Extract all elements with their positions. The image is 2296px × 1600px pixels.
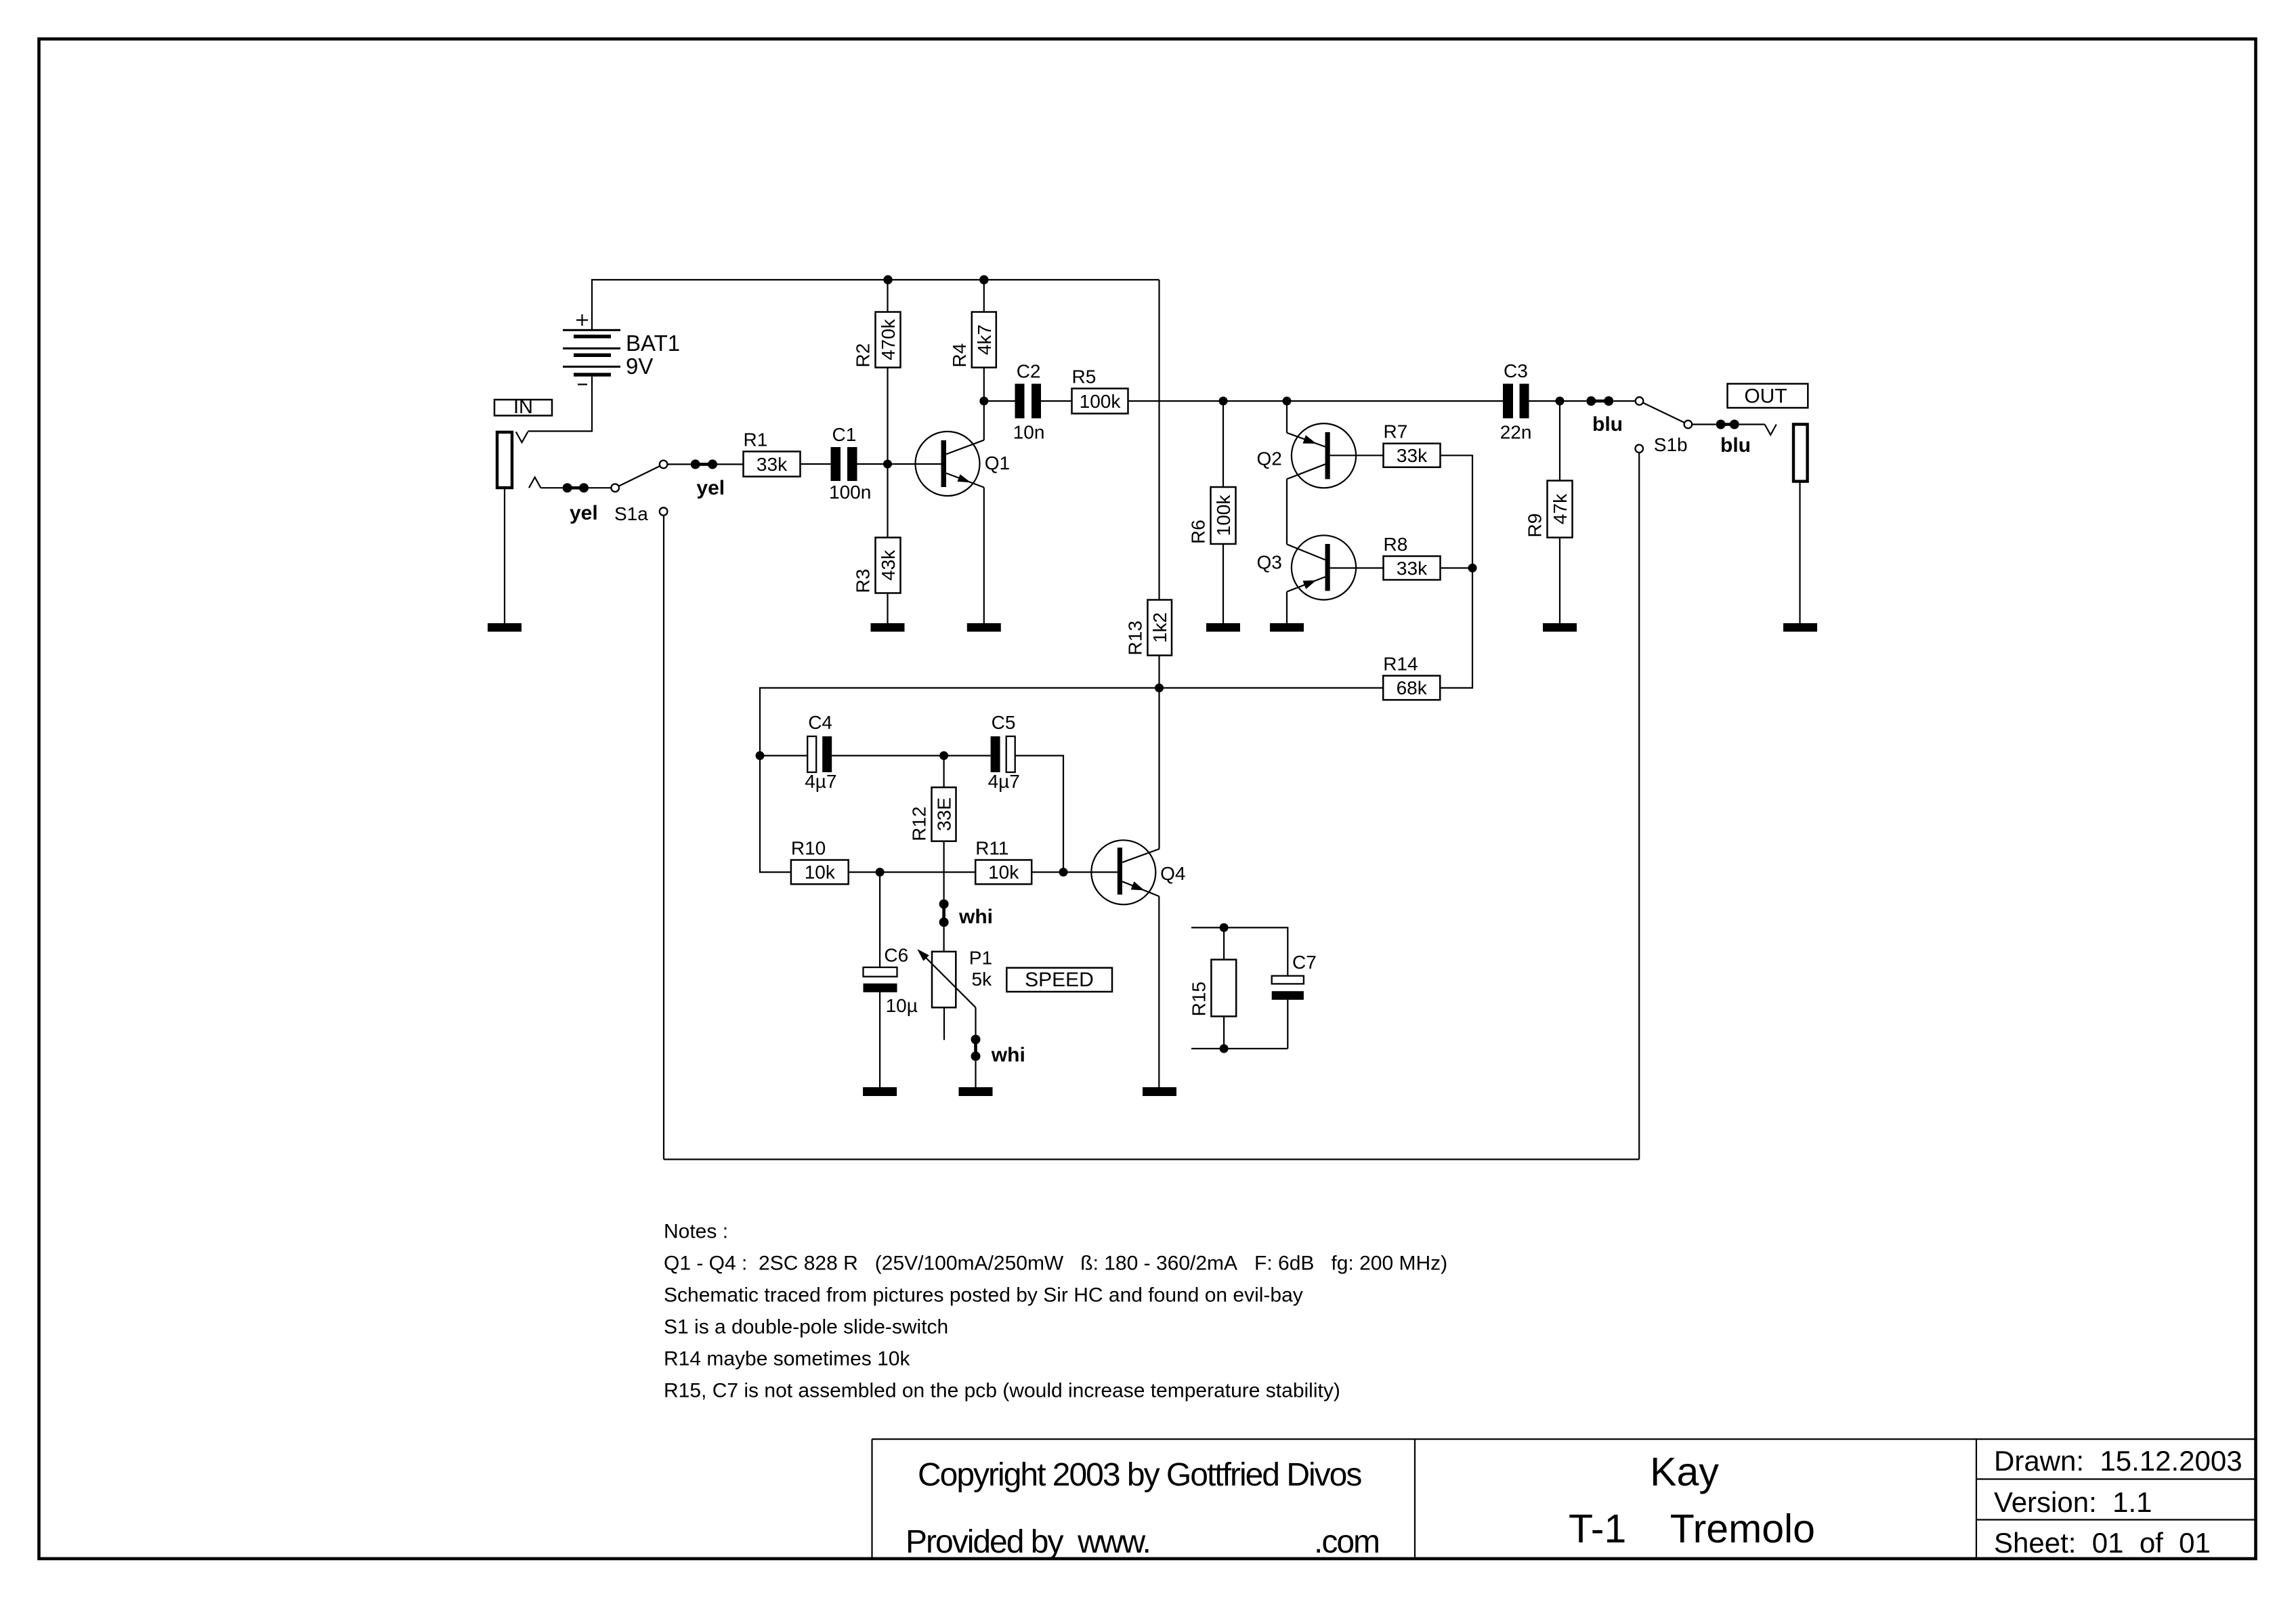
svg-text:R10: R10 <box>791 838 826 859</box>
value 4u7 (C4) <box>805 771 836 792</box>
label C1 <box>832 424 857 445</box>
connector pair whi (R12 to P1) <box>939 900 949 927</box>
wire connector to OUT jack tip <box>1739 423 1765 425</box>
label yel (after switch) <box>696 477 725 499</box>
junction node Q1 base <box>883 460 892 469</box>
value 33E (R12) <box>934 797 955 831</box>
OUT label box <box>1728 384 1808 408</box>
value 5k (P1) <box>972 969 993 990</box>
potentiometer P1 <box>917 949 975 1040</box>
capacitor C6 <box>864 967 897 992</box>
svg-text:P1: P1 <box>969 948 992 969</box>
svg-text:33k: 33k <box>1397 558 1428 579</box>
value 100n (C1) <box>829 482 871 503</box>
connector pair yel (input side) <box>563 483 589 492</box>
resistor R13 <box>1147 600 1172 656</box>
svg-text:whi: whi <box>991 1044 1025 1066</box>
battery BAT1 <box>563 314 620 385</box>
wire R15/C7 top <box>1191 927 1288 975</box>
transistor Q4 <box>1091 840 1160 904</box>
resistor R11 <box>975 860 1032 885</box>
label blu (after switch) <box>1720 434 1751 457</box>
wire junction to R12 <box>943 756 944 788</box>
resistor R7 <box>1384 444 1441 467</box>
wire Q2 collector to Q3 collector <box>1286 479 1288 544</box>
wire R14 to node A <box>1160 687 1384 688</box>
capacitor C7 <box>1272 976 1304 1000</box>
junction R4/C2/Q1 collector <box>979 397 988 406</box>
wire node column down to R14 <box>1440 568 1472 688</box>
ground (Q1) <box>967 623 1001 632</box>
svg-text:blu: blu <box>1720 434 1751 457</box>
value 22n (C3) <box>1500 422 1532 443</box>
ground (IN jack) <box>488 623 522 632</box>
junction rail/R2 <box>883 275 892 284</box>
capacitor C3 <box>1503 384 1529 419</box>
svg-text:C4: C4 <box>808 712 832 733</box>
resistor R8 <box>1384 556 1441 580</box>
label Q1 <box>985 452 1010 473</box>
value 10k (R10) <box>805 862 836 883</box>
ground (R3) <box>871 623 905 632</box>
wire R12 down to connector whi <box>943 841 944 900</box>
junction R15 bottom <box>1220 1045 1229 1053</box>
svg-text:R8: R8 <box>1384 534 1408 555</box>
svg-text:R15, C7 is not assembled on th: R15, C7 is not assembled on the pcb (wou… <box>664 1380 1340 1402</box>
resistor R4 <box>972 312 996 368</box>
svg-text:100k: 100k <box>1213 494 1234 536</box>
value 4k7 (R4) <box>974 324 995 355</box>
wire R15 top lead <box>1223 927 1225 959</box>
wire Q4 emitter to ground <box>1158 896 1160 1087</box>
junction signal/Q2 <box>1283 397 1292 406</box>
wire C7 bottom lead <box>1287 1000 1288 1049</box>
svg-text:R6: R6 <box>1188 520 1209 544</box>
wire rail corner down to R13 <box>1158 280 1160 600</box>
wire R15 bottom lead <box>1223 1016 1225 1049</box>
resistor R14 <box>1383 676 1440 700</box>
SPEED label box <box>1006 968 1112 992</box>
jack IN <box>497 432 528 488</box>
svg-text:R5: R5 <box>1072 366 1097 387</box>
connector pair yel (after switch) <box>691 459 717 469</box>
wire R3 to ground <box>887 593 888 624</box>
junction R11/C5/Q4 base <box>1059 868 1068 877</box>
svg-text:4k7: 4k7 <box>974 324 995 355</box>
label blu (before switch) <box>1592 413 1623 436</box>
label C4 <box>808 712 832 733</box>
svg-text:IN: IN <box>513 396 533 418</box>
resistor R2 <box>876 312 901 368</box>
wire R13 to node A <box>1158 656 1160 688</box>
svg-text:C3: C3 <box>1504 360 1528 381</box>
value 47k (R9) <box>1550 493 1571 524</box>
switch S1a <box>611 461 667 515</box>
label C6 <box>884 944 908 965</box>
svg-text:S1a: S1a <box>614 503 648 524</box>
svg-text:Version: 1.1: Version: 1.1 <box>1994 1486 2152 1518</box>
wire battery minus to IN jack tip <box>528 377 592 431</box>
wire C2 to R5 <box>1041 400 1072 402</box>
svg-text:yel: yel <box>696 477 725 499</box>
label R6 <box>1188 520 1209 544</box>
svg-text:33E: 33E <box>934 797 955 831</box>
wire connector whi to ground <box>975 1061 976 1087</box>
label R10 <box>791 838 826 859</box>
junction C3/R9 <box>1556 397 1565 406</box>
switch S1b <box>1635 397 1692 452</box>
ground (Q3) <box>1270 623 1304 632</box>
wire R10 to R11 <box>849 871 976 872</box>
junction C4/C5/R12 <box>939 751 948 760</box>
wire base node to R3 <box>887 464 888 538</box>
wire S1a to connector yel 2 <box>667 463 690 465</box>
svg-text:33k: 33k <box>757 454 788 475</box>
wire feedback column to C4 <box>760 755 807 756</box>
svg-text:R14: R14 <box>1383 654 1418 675</box>
svg-text:Drawn: 15.12.2003: Drawn: 15.12.2003 <box>1994 1445 2242 1477</box>
transistor Q2 <box>1287 423 1356 488</box>
svg-text:33k: 33k <box>1397 445 1428 466</box>
svg-text:10n: 10n <box>1013 422 1045 443</box>
label R3 <box>853 569 874 593</box>
wire connector to S1a common <box>589 487 611 488</box>
svg-text:R1: R1 <box>744 429 768 450</box>
label Q2 <box>1257 448 1282 469</box>
svg-text:SPEED: SPEED <box>1025 969 1094 991</box>
label whi (upper) <box>958 906 993 928</box>
svg-text:R14 maybe sometimes 10k: R14 maybe sometimes 10k <box>664 1348 910 1370</box>
transistor Q3 <box>1287 535 1356 599</box>
junction signal/R6 <box>1219 397 1228 406</box>
value 4u7 (C5) <box>988 771 1020 792</box>
ground (R9) <box>1543 623 1577 632</box>
svg-text:10µ: 10µ <box>886 995 918 1016</box>
svg-text:S1b: S1b <box>1654 434 1688 455</box>
label C5 <box>992 712 1016 733</box>
svg-text:Schematic traced from pictures: Schematic traced from pictures posted by… <box>664 1284 1303 1307</box>
svg-text:BAT1: BAT1 <box>626 331 680 356</box>
svg-text:R2: R2 <box>853 343 874 368</box>
wire R4 to collector node <box>983 368 985 402</box>
wire R2 to base node <box>887 368 888 465</box>
transistor Q1 <box>916 431 984 496</box>
ground (C6) <box>863 1087 897 1096</box>
label S1b <box>1654 434 1688 455</box>
label C7 <box>1292 952 1317 973</box>
wire R1 to C1 <box>801 463 831 465</box>
value 100k (R6) <box>1213 494 1234 536</box>
svg-text:100n: 100n <box>829 482 871 503</box>
wire rail to R2 <box>887 280 888 312</box>
svg-text:10k: 10k <box>988 862 1019 883</box>
wire S1b unused throw down to bypass loop <box>1638 452 1640 1159</box>
label BAT1 value 9V <box>626 331 680 379</box>
label yel (input side) <box>570 502 598 524</box>
svg-text:Q4: Q4 <box>1160 863 1185 884</box>
wire C3 to R9 node <box>1529 400 1587 402</box>
resistor R5 <box>1072 389 1128 414</box>
wire C1 to Q1 base <box>857 463 941 465</box>
value 10k (R11) <box>988 862 1019 883</box>
wire connector to R1 <box>717 463 744 465</box>
svg-text:R9: R9 <box>1525 513 1546 538</box>
value 470k (R2) <box>878 318 899 360</box>
label R11 <box>975 838 1008 859</box>
notes text <box>664 1221 1447 1402</box>
junction feedback/C4 <box>756 751 765 760</box>
wire Q2 base to R7 <box>1330 455 1384 456</box>
label R8 <box>1384 534 1408 555</box>
svg-text:blu: blu <box>1592 413 1623 436</box>
svg-text:Q1 - Q4 : 2SC 828 R (25V/10: Q1 - Q4 : 2SC 828 R (25V/100mA/250mW ß: … <box>664 1252 1447 1275</box>
node OUT jack tip contact (arrow) <box>1765 425 1777 436</box>
label C2 <box>1017 361 1041 382</box>
svg-text:R3: R3 <box>853 569 874 593</box>
junction R15 top <box>1220 923 1229 932</box>
svg-text:R11: R11 <box>975 838 1008 859</box>
svg-text:yel: yel <box>570 502 598 524</box>
ground (Q4) <box>1143 1087 1176 1096</box>
svg-text:5k: 5k <box>972 969 993 990</box>
resistor R15 <box>1211 960 1236 1017</box>
wire C5 to Q4 base node <box>1015 756 1063 872</box>
value 68k (R14) <box>1397 677 1428 698</box>
capacitor C1 <box>831 447 857 481</box>
wire P1 wiper down to connector whi <box>975 1007 976 1034</box>
svg-text:C7: C7 <box>1292 952 1317 973</box>
wire R8 to node column <box>1441 567 1473 568</box>
wire S1a unused throw down to bypass loop <box>663 515 664 1160</box>
label whi (lower) <box>991 1044 1025 1066</box>
value 33k (R8) <box>1397 558 1428 579</box>
svg-text:R4: R4 <box>949 343 970 368</box>
wire C4 to C5 <box>832 755 990 756</box>
label C3 <box>1504 360 1528 381</box>
jack OUT <box>1793 424 1808 481</box>
wire collector node to C2 <box>984 400 1015 402</box>
svg-text:470k: 470k <box>878 318 899 360</box>
label R14 <box>1383 654 1418 675</box>
label S1a <box>614 503 648 524</box>
svg-text:R15: R15 <box>1188 982 1209 1016</box>
svg-text:22n: 22n <box>1500 422 1532 443</box>
svg-text:C5: C5 <box>992 712 1016 733</box>
svg-text:9V: 9V <box>626 354 653 379</box>
junction R10/C6 <box>876 868 885 877</box>
wire node A to Q4 collector <box>1158 688 1160 849</box>
ground (P1 wiper) <box>959 1087 993 1096</box>
capacitor C5 <box>991 736 1015 772</box>
svg-text:68k: 68k <box>1397 677 1428 698</box>
value 1k2 (R13) <box>1149 612 1170 643</box>
svg-text:47k: 47k <box>1550 493 1571 524</box>
svg-text:1k2: 1k2 <box>1149 612 1170 643</box>
label R4 <box>949 343 970 368</box>
IN label box <box>494 396 552 418</box>
svg-text:S1 is a double-pole slide-swit: S1 is a double-pole slide-switch <box>664 1316 948 1339</box>
svg-text:Kay: Kay <box>1650 1450 1719 1494</box>
label Q4 <box>1160 863 1185 884</box>
svg-text:Copyright 2003 by Gottfried Di: Copyright 2003 by Gottfried Divos <box>918 1457 1361 1493</box>
connector pair blu (before switch) <box>1586 396 1613 406</box>
label R1 <box>744 429 768 450</box>
value 43k (R3) <box>878 549 899 581</box>
resistor R10 <box>791 860 849 885</box>
value 10u (C6) <box>886 995 918 1016</box>
wire OUT jack sleeve to ground <box>1799 482 1800 623</box>
junction rail/R4 <box>979 275 988 284</box>
wire IN jack sleeve to ground <box>504 489 505 623</box>
value 10n (C2) <box>1013 422 1045 443</box>
label R12 <box>909 806 930 841</box>
wire R9 to ground <box>1559 538 1560 624</box>
ground (OUT jack) <box>1783 623 1817 632</box>
svg-text:Notes :: Notes : <box>664 1221 728 1243</box>
wire V+ rail <box>592 280 1160 329</box>
resistor R9 <box>1548 481 1573 538</box>
label P1 <box>969 948 992 969</box>
wire rail to R4 <box>983 280 985 312</box>
resistor R12 <box>932 787 956 841</box>
resistor R1 <box>744 452 801 477</box>
junction R7/R8 column <box>1468 564 1477 572</box>
svg-text:Sheet: 01 of 01: Sheet: 01 of 01 <box>1994 1527 2211 1559</box>
label Q3 <box>1257 552 1282 573</box>
wire Q3 base to R8 <box>1330 567 1384 568</box>
value 33k (R7) <box>1397 445 1428 466</box>
wire Q3 emitter to ground <box>1286 592 1288 624</box>
wire R11 to Q4 base <box>1032 871 1118 872</box>
label R7 <box>1384 421 1408 442</box>
svg-text:C1: C1 <box>832 424 857 445</box>
svg-text:R13: R13 <box>1124 620 1145 655</box>
svg-text:C6: C6 <box>884 944 908 965</box>
wire connector whi to P1 <box>943 927 944 951</box>
wire C6 to ground <box>879 992 880 1087</box>
wire R6 to ground <box>1223 544 1224 623</box>
capacitor C2 <box>1015 384 1042 419</box>
title block <box>872 1439 2256 1561</box>
wire signal bus to Q2 emitter <box>1286 401 1288 433</box>
wire jack tip to connector yel <box>540 487 563 488</box>
junction node A (R13 / R14 / Q4) <box>1155 683 1164 692</box>
svg-text:100k: 100k <box>1080 391 1122 412</box>
svg-text:Provided by www.: Provided by www. <box>906 1524 1150 1560</box>
label R2 <box>853 343 874 368</box>
ground (R6) <box>1206 623 1240 632</box>
wire node A down-left to oscillator feedback column <box>760 688 1160 872</box>
svg-text:whi: whi <box>958 906 993 928</box>
svg-text:C2: C2 <box>1017 361 1041 382</box>
label R13 <box>1124 620 1145 655</box>
wire bypass loop (S1a to S1b) <box>664 1158 1639 1160</box>
svg-text:Q3: Q3 <box>1257 552 1282 573</box>
wire Q1 collector <box>983 401 985 440</box>
wire Q1 emitter to ground <box>983 488 985 624</box>
svg-text:T-1 Tremolo: T-1 Tremolo <box>1569 1507 1815 1551</box>
connector pair whi (P1 to ground) <box>971 1035 981 1061</box>
wire R15/C7 bottom <box>1191 1048 1288 1049</box>
wire junction down to C6 <box>879 872 880 968</box>
resistor R3 <box>876 538 901 593</box>
svg-text:R12: R12 <box>909 806 930 841</box>
svg-text:Q2: Q2 <box>1257 448 1282 469</box>
svg-text:OUT: OUT <box>1744 385 1787 408</box>
wire R9 node down <box>1559 401 1560 481</box>
wire S1b to connector blu 2 <box>1692 423 1716 425</box>
label R5 <box>1072 366 1097 387</box>
label R15 <box>1188 982 1209 1016</box>
svg-text:4µ7: 4µ7 <box>988 771 1020 792</box>
wire R5 to C3 (signal bus) <box>1128 400 1504 402</box>
svg-text:10k: 10k <box>805 862 836 883</box>
svg-text:.com: .com <box>1314 1524 1379 1560</box>
wire R7 to R8 node column <box>1441 455 1473 568</box>
connector pair blu (after switch) <box>1716 420 1739 429</box>
value 100k (R5) <box>1080 391 1122 412</box>
svg-text:4µ7: 4µ7 <box>805 771 836 792</box>
value 33k (R1) <box>757 454 788 475</box>
svg-text:43k: 43k <box>878 549 899 581</box>
svg-text:Q1: Q1 <box>985 452 1010 473</box>
wire connector to S1b common <box>1613 400 1636 402</box>
capacitor C4 <box>807 736 832 772</box>
svg-text:R7: R7 <box>1384 421 1408 442</box>
wire signal bus to R6 <box>1223 401 1224 487</box>
label R9 <box>1525 513 1546 538</box>
node jack tip contact (arrow) <box>529 478 540 488</box>
resistor R6 <box>1211 487 1236 544</box>
